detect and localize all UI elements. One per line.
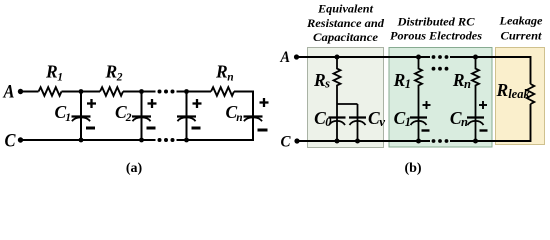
junction dot R1 top bbox=[416, 55, 421, 60]
wire A to R1 bbox=[23, 91, 39, 93]
node C terminal dot bbox=[18, 137, 23, 142]
ellipsis dots top rail (b) bbox=[432, 55, 449, 59]
top rail wire (b) left segment bbox=[299, 56, 431, 58]
resistor Rs bbox=[334, 57, 341, 104]
ellipsis dots bottom rail (a) bbox=[158, 138, 175, 142]
region box 1: Equivalent Resistance and Capacitance bbox=[308, 48, 384, 148]
junction dot C2 bottom bbox=[139, 138, 144, 143]
ellipsis dots bottom rail (b) bbox=[432, 139, 449, 143]
resistor R1 (b) bbox=[415, 57, 422, 141]
capacitor C0 bbox=[329, 118, 346, 126]
wire C3 branch vertical bbox=[186, 92, 188, 141]
wire R2 to node2 bbox=[123, 91, 156, 93]
capacitor C1 bbox=[72, 117, 91, 122]
capacitor C2 bbox=[132, 117, 151, 122]
title Leakage Current bbox=[498, 16, 542, 43]
node C terminal dot (b) bbox=[294, 138, 299, 143]
ellipsis dots middle (b) between R1 and Rn bbox=[432, 67, 449, 71]
title Equivalent Resistance and Capacitance bbox=[306, 4, 384, 45]
minus sign C1 bbox=[86, 127, 95, 130]
plus sign C1 bbox=[87, 99, 96, 108]
wire Cv branch vertical bbox=[357, 104, 359, 141]
resistor R1 bbox=[39, 87, 62, 96]
bottom rail wire left segment bbox=[23, 139, 156, 141]
junction dot Rn top bbox=[473, 55, 478, 60]
node A terminal dot bbox=[18, 89, 23, 94]
node 1 junction dot bbox=[79, 89, 84, 94]
minus sign C2 bbox=[147, 127, 156, 130]
wire node1 to R2 bbox=[81, 91, 100, 93]
junction dot C3 bottom bbox=[184, 138, 189, 143]
junction dot C1 bottom (b) bbox=[416, 139, 421, 144]
plus sign Cn (b) bbox=[479, 101, 487, 109]
wire R1 to node1 bbox=[62, 91, 83, 93]
svg-text:Current: Current bbox=[501, 31, 543, 43]
svg-text:Equivalent: Equivalent bbox=[317, 4, 374, 16]
node 3 junction dot bbox=[184, 89, 189, 94]
title Distributed RC Porous Electrodes bbox=[390, 17, 483, 43]
svg-text:Distributed RC: Distributed RC bbox=[396, 17, 474, 29]
svg-text:(a): (a) bbox=[126, 161, 143, 176]
junction dot C1 bottom bbox=[79, 138, 84, 143]
svg-text:A: A bbox=[3, 82, 15, 103]
plus sign C3 bbox=[193, 99, 202, 108]
minus sign Cn (b) bbox=[480, 129, 488, 131]
capacitor C3 (unlabeled) bbox=[177, 117, 196, 122]
minus sign C1 (b) bbox=[422, 129, 430, 131]
capacitor Cn (b) bbox=[467, 118, 484, 126]
ellipsis dots top rail (a) bbox=[158, 90, 175, 94]
plus sign Cn bbox=[260, 98, 269, 107]
top rail wire (b) right segment to Rleak corner bbox=[450, 57, 531, 84]
capacitor Cn bbox=[244, 117, 263, 122]
svg-text:(b): (b) bbox=[404, 161, 421, 176]
svg-text:Leakage: Leakage bbox=[498, 16, 542, 28]
minus sign Cn bbox=[258, 129, 268, 132]
svg-text:Resistance and: Resistance and bbox=[306, 18, 384, 30]
svg-text:Capacitance: Capacitance bbox=[313, 32, 378, 44]
bottom rail wire (b) left segment bbox=[299, 140, 430, 142]
plus sign C1 (b) bbox=[423, 101, 431, 109]
wire Rs split horizontal to Cv bbox=[337, 103, 358, 105]
wire Cn branch vertical bbox=[252, 92, 254, 141]
capacitor C1 (b) bbox=[410, 118, 427, 126]
resistor Rn (b) bbox=[472, 57, 479, 141]
junction dot Cn bottom (b) bbox=[473, 139, 478, 144]
wire C1 branch vertical bbox=[80, 92, 82, 141]
junction dot Rs top bbox=[335, 55, 340, 60]
bottom rail wire (b) right segment to Rleak corner bbox=[450, 104, 531, 141]
minus sign C3 bbox=[192, 127, 201, 130]
wire dots to node3 bbox=[177, 91, 212, 93]
svg-text:A: A bbox=[280, 49, 291, 66]
capacitor Cv bbox=[349, 118, 366, 126]
junction dot C0 bottom bbox=[335, 139, 340, 144]
svg-text:C: C bbox=[281, 134, 291, 151]
node 2 junction dot bbox=[139, 89, 144, 94]
plus sign C2 bbox=[148, 99, 157, 108]
resistor Rn bbox=[211, 87, 234, 96]
wire C2 branch vertical bbox=[141, 92, 143, 141]
node A terminal dot (b) bbox=[294, 54, 299, 59]
svg-text:C: C bbox=[5, 131, 16, 152]
bottom rail wire right segment bbox=[177, 139, 255, 141]
resistor R2 bbox=[100, 87, 123, 96]
resistor Rleak bbox=[527, 84, 535, 104]
junction dot Cv bottom bbox=[355, 139, 360, 144]
region box 3: Leakage Current bbox=[496, 48, 545, 145]
region box 2: Distributed RC Porous Electrodes bbox=[389, 48, 492, 148]
wire Rn to right corner bbox=[234, 91, 254, 93]
wire C0 branch vertical bbox=[336, 104, 338, 141]
svg-text:Porous Electrodes: Porous Electrodes bbox=[390, 31, 483, 43]
